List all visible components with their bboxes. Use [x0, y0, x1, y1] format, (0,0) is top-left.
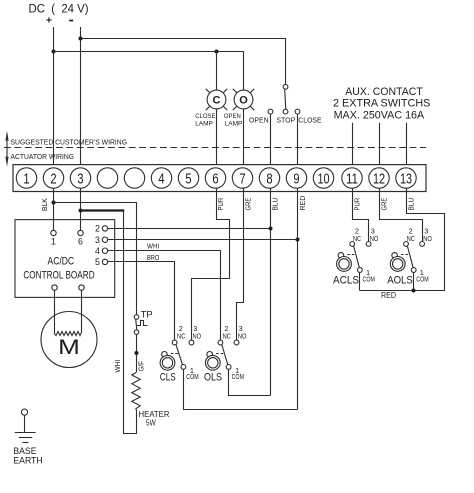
svg-text:OPEN: OPEN: [224, 113, 241, 120]
svg-text:CONTROL BOARD: CONTROL BOARD: [23, 270, 94, 282]
svg-text:11: 11: [346, 172, 358, 188]
AOLS contact NC: [404, 242, 409, 247]
wire OPEN to terminal 8: [270, 114, 272, 168]
wire terminal 11 PUR to ACLS NO: [353, 189, 369, 242]
svg-text:GRE: GRE: [382, 197, 389, 210]
svg-text:2 EXTRA SWITCHS: 2 EXTRA SWITCHS: [333, 98, 430, 110]
svg-text:GRE: GRE: [246, 197, 253, 210]
svg-text:2: 2: [95, 224, 100, 234]
OLS dashed link: [216, 353, 223, 355]
svg-text:1: 1: [23, 172, 29, 188]
terminal strip box: [13, 165, 426, 192]
terminal 4: [151, 168, 171, 188]
svg-text:8: 8: [266, 172, 272, 188]
svg-text:DC ( 24 V): DC ( 24 V): [29, 3, 89, 15]
terminal 11: [342, 168, 362, 188]
node BLK tap: [52, 201, 56, 205]
limit switch CLS: [160, 324, 202, 384]
CLS lever NC-COM: [176, 345, 183, 365]
svg-text:COM: COM: [232, 372, 244, 381]
terminal 13: [396, 168, 416, 188]
wire terminal 12 GRE to AOLS NO: [380, 189, 423, 242]
ACLS lever NC-COM: [354, 246, 360, 268]
svg-text:4: 4: [158, 172, 164, 188]
svg-text:6: 6: [78, 236, 83, 246]
ACLS contact COM: [358, 268, 363, 273]
board motor pin right: [79, 285, 84, 290]
wire terminal 6 PUR to CLS NO: [192, 189, 230, 341]
wire CLOSE to terminal 9: [297, 114, 299, 168]
svg-text:SUGGESTED CUSTOMER'S WIRING: SUGGESTED CUSTOMER'S WIRING: [11, 137, 128, 146]
svg-text:ACTUATOR WIRING: ACTUATOR WIRING: [11, 152, 75, 161]
wire RED to CLS COM: [184, 370, 298, 410]
terminal 9: [286, 168, 306, 188]
CLS contact NC: [172, 340, 177, 345]
svg-text:PUR: PUR: [218, 198, 225, 211]
wire TP to heater: [136, 334, 138, 372]
AOLS knob cam: [392, 253, 398, 259]
wire O lamp lower lead to terminal 7: [243, 109, 245, 168]
CLS knob cam: [162, 352, 168, 358]
svg-text:AC/DC: AC/DC: [48, 256, 75, 268]
wire STOP drop: [285, 38, 287, 84]
wire O lamp upper lead: [243, 51, 245, 90]
wire thick heater return branch: [81, 209, 125, 211]
terminal 7: [232, 168, 252, 188]
wire ACLS COM drop: [359, 272, 361, 290]
svg-text:+: +: [46, 14, 52, 26]
lamp C (close lamp): [206, 89, 227, 110]
terminal blank B: [124, 168, 144, 188]
board pin 2: [95, 224, 108, 234]
terminal 1: [16, 168, 36, 188]
heater resistor zigzag: [132, 373, 140, 411]
svg-text:COM: COM: [363, 275, 375, 284]
lamp O (open lamp): [233, 89, 254, 110]
pushbutton CLOSE contact: [295, 109, 300, 114]
svg-text:WHI: WHI: [147, 242, 159, 251]
svg-text:ACLS: ACLS: [333, 274, 359, 286]
board pin 3: [95, 235, 108, 245]
svg-text:6: 6: [212, 172, 218, 188]
CLS contact COM: [181, 365, 186, 370]
svg-text:LAMP: LAMP: [225, 120, 243, 127]
terminal blank A: [97, 168, 117, 188]
terminal 3: [70, 168, 90, 188]
wire terminal 3 to board pin 6: [80, 188, 82, 230]
svg-text:10: 10: [317, 172, 329, 188]
svg-text:C: C: [213, 95, 221, 107]
wire C lamp upper lead: [216, 51, 218, 90]
OLS contact NO: [234, 340, 239, 345]
svg-text:CLS: CLS: [160, 372, 176, 384]
node terminal3 heater tap: [79, 209, 83, 213]
svg-text:4: 4: [95, 246, 100, 256]
svg-text:CLOSE: CLOSE: [298, 115, 321, 124]
wire BLU to OLS COM: [229, 370, 271, 396]
wire terminal 9 RED down: [297, 188, 299, 409]
board motor pin left: [52, 285, 57, 290]
aux switch AOLS: [387, 227, 432, 287]
svg-text:12: 12: [373, 172, 385, 188]
ACLS contact NO: [366, 242, 371, 247]
svg-text:BLU: BLU: [273, 198, 280, 211]
svg-text:13: 13: [400, 172, 412, 188]
thermal protector TP: [134, 310, 152, 335]
wire heater return vertical (WHI): [124, 211, 137, 434]
svg-text:5: 5: [95, 257, 100, 267]
wire terminal 7 GRE to OLS NO: [237, 189, 244, 341]
OLS knob cam: [207, 352, 213, 358]
svg-text:BRO: BRO: [147, 253, 160, 262]
terminal 5: [178, 168, 198, 188]
board pin 4: [95, 246, 108, 256]
svg-text:PUR: PUR: [355, 198, 362, 211]
svg-text:NO: NO: [423, 234, 432, 243]
wire RED bus aux: [360, 290, 445, 292]
wire DC- vertical to terminal 3: [80, 27, 82, 168]
svg-text:LAMP: LAMP: [195, 120, 213, 127]
terminal 8: [259, 168, 279, 188]
svg-text:O: O: [239, 95, 248, 107]
board pin 1: [51, 230, 56, 246]
wire pin 5 BRO to CLS NC: [108, 262, 175, 341]
svg-text:NC: NC: [223, 332, 231, 341]
OLS contact COM: [226, 365, 231, 370]
terminal 12: [369, 168, 389, 188]
wire stub to terminal 13: [406, 123, 408, 168]
svg-text:AUX. CONTACT: AUX. CONTACT: [345, 86, 423, 98]
svg-text:OPEN: OPEN: [249, 115, 269, 124]
svg-text:OLS: OLS: [204, 372, 222, 384]
AOLS contact COM: [411, 268, 416, 273]
OLS contact NC: [218, 340, 223, 345]
OLS lever NC-COM: [222, 345, 228, 365]
svg-text:NC: NC: [407, 234, 415, 243]
board pin 5: [95, 257, 108, 267]
ACLS knob cam: [338, 253, 344, 259]
svg-text:2: 2: [50, 172, 56, 188]
node - button bus junction: [79, 37, 83, 41]
double arrow separator marker: [5, 131, 8, 167]
svg-text:NO: NO: [238, 332, 247, 341]
svg-text:G/F: G/F: [139, 361, 146, 372]
wire C lamp lower lead to terminal 6: [216, 109, 218, 168]
svg-text:NO: NO: [193, 332, 202, 341]
wire DC+ vertical to terminal 2: [53, 27, 55, 168]
svg-text:COM: COM: [416, 275, 428, 284]
node AOLS COM junction: [412, 289, 416, 293]
svg-text:7: 7: [239, 172, 245, 188]
AOLS dashed link: [401, 254, 408, 256]
AOLS lever NC-COM: [407, 246, 413, 268]
svg-text:STOP: STOP: [276, 115, 295, 124]
wire motor lead right: [81, 290, 83, 333]
wire stub to terminal 12: [379, 123, 381, 168]
wire pin 2 to BLU: [108, 228, 270, 230]
wire pin 4 WHI to OLS NC: [108, 251, 221, 341]
svg-text:NC: NC: [177, 332, 185, 341]
svg-text:NO: NO: [370, 234, 379, 243]
svg-text:TP: TP: [141, 310, 153, 321]
ACLS contact NC: [350, 242, 355, 247]
svg-text:MAX. 250VAC 16A: MAX. 250VAC 16A: [334, 110, 425, 122]
node RED pin3 junction: [296, 238, 300, 242]
aux switch ACLS: [333, 227, 378, 287]
node BLU pin2 junction: [269, 227, 273, 231]
terminal 2: [43, 168, 63, 188]
node + lamp bus junction: [52, 50, 56, 54]
CLS contact NO: [189, 340, 194, 345]
svg-text:5W: 5W: [146, 418, 156, 427]
svg-text:RED: RED: [300, 196, 307, 211]
wire pin 3 to RED: [108, 239, 298, 241]
svg-text:M: M: [58, 335, 80, 359]
wire lamp supply bus: [54, 51, 244, 53]
svg-text:CLOSE: CLOSE: [195, 113, 216, 120]
svg-text:BLU: BLU: [409, 198, 416, 211]
wire terminal 8 BLU down: [270, 188, 272, 395]
node C lamp tap: [215, 50, 219, 54]
svg-text:COM: COM: [186, 372, 198, 381]
wire motor lead left: [54, 290, 56, 333]
terminal 10: [313, 168, 333, 188]
wire BLK branch to TP: [54, 203, 137, 315]
svg-text:5: 5: [185, 172, 191, 188]
pushbutton STOP (NC) contacts: [283, 84, 288, 114]
node mid TP-heater: [135, 351, 139, 355]
wire terminal 2 to board pin 1 (BLK): [53, 188, 55, 230]
wire terminal 13 BLU to RED bus: [407, 189, 445, 291]
svg-text:3: 3: [77, 172, 83, 188]
motor M: [41, 312, 97, 368]
wire AOLS COM drop: [413, 272, 415, 290]
svg-text:EARTH: EARTH: [13, 455, 42, 465]
wire button supply bus: [81, 38, 286, 40]
svg-text:WHI: WHI: [115, 360, 122, 373]
limit switch OLS: [204, 324, 247, 384]
svg-text:AOLS: AOLS: [387, 274, 413, 286]
svg-text:BLK: BLK: [42, 198, 49, 211]
svg-text:1: 1: [51, 236, 56, 246]
svg-text:BASE: BASE: [13, 446, 36, 456]
svg-text:RED: RED: [381, 291, 396, 300]
svg-text:3: 3: [95, 235, 100, 245]
control board box: [15, 220, 115, 298]
wire stub to terminal 11: [352, 123, 354, 168]
ACLS dashed link: [347, 254, 354, 256]
separator customer/actuator dashed line: [4, 147, 426, 149]
svg-text:9: 9: [293, 172, 299, 188]
AOLS contact NO: [420, 242, 425, 247]
base earth ground: [15, 409, 36, 442]
terminal 6: [205, 168, 225, 188]
board pin 6: [78, 230, 83, 246]
minus terminal label: [69, 20, 73, 22]
svg-text:NC: NC: [353, 234, 361, 243]
pushbutton OPEN contact: [268, 109, 273, 114]
CLS dashed link: [171, 353, 178, 355]
